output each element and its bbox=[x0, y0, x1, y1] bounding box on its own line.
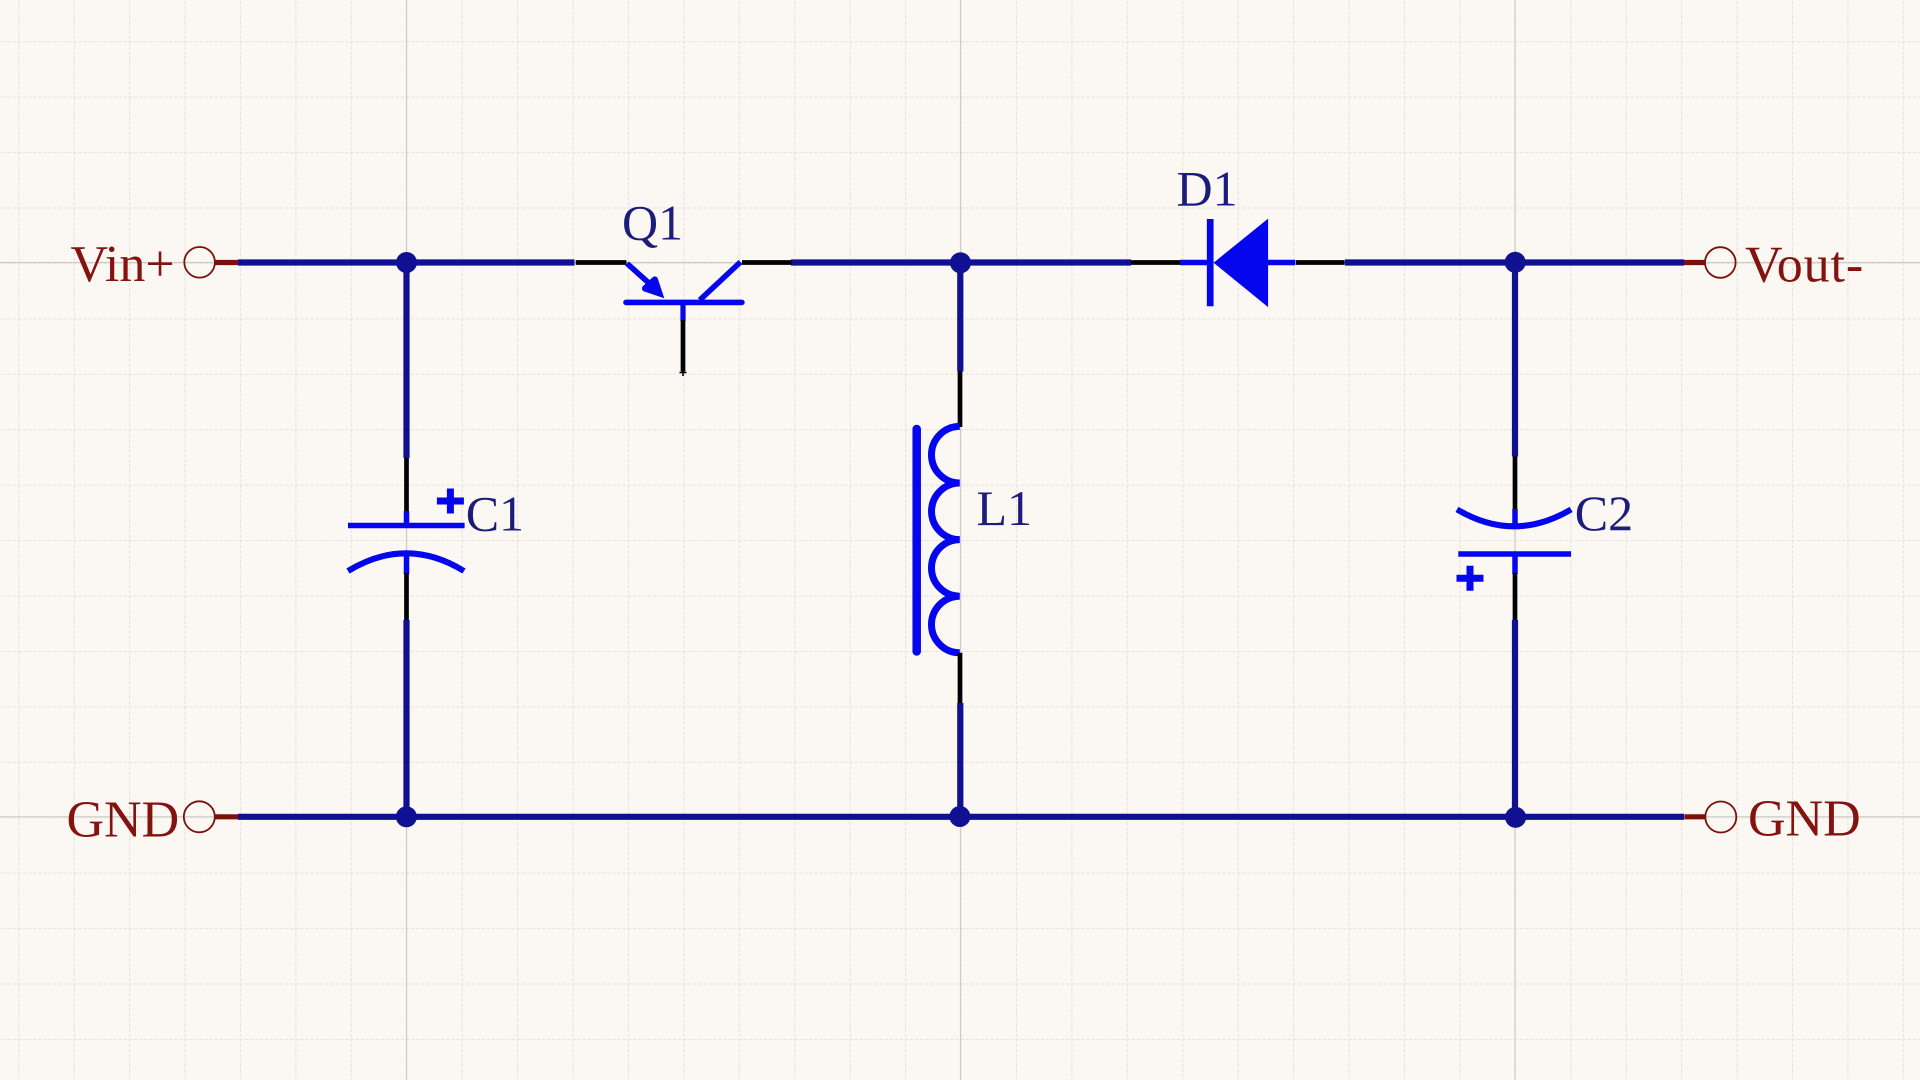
capacitor C2 bottom pin black bbox=[1513, 573, 1518, 620]
capacitor C1 top pin black bbox=[404, 458, 409, 512]
capacitor C2 top pin black bbox=[1513, 457, 1518, 511]
transistor Q1 pin 2 (right) bbox=[742, 260, 792, 265]
port Vin+ circle bbox=[184, 247, 215, 278]
capacitor C1 bottom pin black bbox=[404, 573, 409, 620]
port Vout- stub bbox=[1684, 260, 1705, 265]
wire left column lower bbox=[403, 620, 409, 817]
capacitor C2 bottom lead blue bbox=[1512, 554, 1518, 574]
capacitor C2 top lead blue bbox=[1512, 509, 1518, 527]
junction top-mid bbox=[950, 252, 971, 273]
capacitor C1 plus sign bbox=[437, 489, 464, 514]
capacitor C1 top plate bbox=[348, 523, 465, 529]
wire top rail Q1 to D1 bbox=[791, 259, 1131, 265]
svg-text:D1: D1 bbox=[1177, 161, 1238, 217]
transistor Q1 base stub blue bbox=[680, 302, 685, 321]
wire top rail Vin to Q1 bbox=[238, 259, 575, 265]
port GND right stub bbox=[1684, 814, 1705, 819]
port GND left circle bbox=[184, 801, 215, 832]
transistor Q1 emitter arrowhead bbox=[642, 276, 664, 298]
capacitor C1 bottom lead blue bbox=[404, 553, 410, 574]
svg-text:C2: C2 bbox=[1575, 485, 1633, 541]
junction top-right bbox=[1505, 252, 1526, 273]
wire left column upper bbox=[403, 263, 409, 459]
inductor L1 bottom pin black bbox=[958, 653, 963, 703]
transistor Q1 pin 1 (left) bbox=[576, 260, 627, 265]
svg-text:C1: C1 bbox=[466, 486, 524, 542]
diode D1 right lead blue bbox=[1268, 260, 1295, 266]
diode D1 left pin black bbox=[1131, 260, 1180, 265]
wire top rail D1 to Vout bbox=[1345, 259, 1684, 265]
diode D1 left lead blue bbox=[1180, 260, 1208, 266]
wire right column lower bbox=[1512, 620, 1518, 817]
transistor Q1 base pin black bbox=[681, 320, 686, 372]
diode D1 triangle bbox=[1214, 219, 1269, 308]
major grid line horizontal y=262 bbox=[0, 262, 1920, 264]
transistor Q1 base pin end cross bbox=[680, 369, 687, 376]
capacitor C2 plus sign bbox=[1457, 566, 1484, 591]
transistor Q1 base bar bbox=[626, 300, 742, 306]
inductor L1 top pin black bbox=[958, 372, 963, 428]
svg-text:Vin+: Vin+ bbox=[71, 236, 175, 293]
major grid line vertical x=960 bbox=[960, 0, 962, 1080]
svg-text:Vout-: Vout- bbox=[1745, 237, 1864, 294]
junction bottom-left bbox=[396, 806, 417, 827]
capacitor C2 top curved plate bbox=[1457, 509, 1571, 526]
svg-text:Q1: Q1 bbox=[622, 195, 683, 251]
svg-text:L1: L1 bbox=[977, 480, 1033, 536]
major grid line horizontal y=817 bbox=[0, 816, 1920, 818]
capacitor C1 bottom curved plate bbox=[348, 553, 464, 571]
port GND right circle bbox=[1705, 802, 1736, 833]
svg-text:GND: GND bbox=[67, 792, 180, 849]
junction bottom-right bbox=[1505, 807, 1526, 828]
wire mid column lower bbox=[957, 703, 963, 817]
transistor Q1 collector diagonal bbox=[700, 262, 741, 300]
junction bottom-mid bbox=[949, 806, 970, 827]
junction top-left bbox=[396, 252, 417, 273]
inductor L1 coils bbox=[931, 426, 959, 652]
svg-text:GND: GND bbox=[1748, 791, 1861, 848]
major grid line vertical x=406 bbox=[406, 0, 408, 1080]
port GND left stub bbox=[215, 814, 238, 819]
port Vout- circle bbox=[1705, 247, 1736, 278]
port Vin+ stub bbox=[215, 260, 238, 265]
capacitor C2 bottom plate bbox=[1458, 551, 1571, 557]
wire bottom rail bbox=[238, 814, 1684, 820]
wire right column upper bbox=[1512, 263, 1518, 457]
wire mid column upper bbox=[957, 263, 963, 372]
capacitor C1 top lead blue bbox=[404, 511, 410, 526]
diode D1 right pin black bbox=[1296, 260, 1345, 265]
inductor L1 core bar bbox=[912, 429, 921, 652]
diode D1 cathode bar bbox=[1207, 219, 1214, 306]
major grid line vertical x=1515 bbox=[1514, 0, 1516, 1080]
transistor Q1 emitter diagonal bbox=[627, 263, 660, 292]
